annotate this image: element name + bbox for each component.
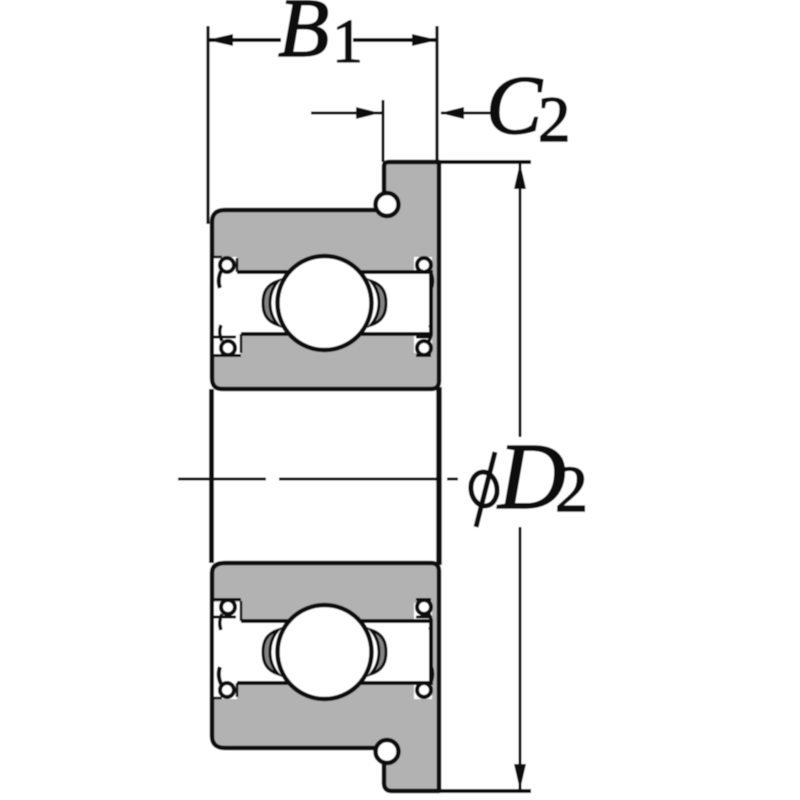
svg-text:2: 2 <box>555 453 588 526</box>
bottom seal curl top-right <box>417 600 431 614</box>
bottom cavity right wall <box>429 619 433 685</box>
label phi D2 <box>469 425 588 529</box>
dimension C2 extension line <box>382 100 385 162</box>
bottom seal curl bottom-right <box>417 683 431 697</box>
bore right face line <box>436 387 442 565</box>
top cavity white <box>214 271 432 334</box>
bottom cage left <box>263 630 278 674</box>
arrow phi D2 top <box>514 163 526 189</box>
bottom groove step lines <box>212 697 222 700</box>
top cavity right wall <box>429 270 433 336</box>
bottom cavity seal groove whites <box>214 683 237 699</box>
top seal curl top-right <box>417 258 431 272</box>
arrow B1 left <box>207 34 233 46</box>
bore left face line <box>209 389 214 563</box>
top cavity inner race line <box>241 332 430 336</box>
top flange root notch <box>376 193 399 216</box>
svg-text:2: 2 <box>538 84 571 156</box>
bottom half silhouette with flange tab <box>212 563 439 791</box>
centerline <box>178 478 266 481</box>
dimension B1 extension line left <box>206 26 209 224</box>
dimension B1 line <box>208 38 281 42</box>
top cage left <box>263 281 278 325</box>
dimension C2 line left with arrow <box>311 112 383 115</box>
bottom cavity inner race line <box>241 619 430 623</box>
bottom seal curl bottom-left <box>220 683 234 697</box>
bottom flange root notch <box>376 740 399 763</box>
svg-text:1: 1 <box>332 8 363 76</box>
bottom ball <box>278 605 372 699</box>
phi D2 bottom extension line <box>439 789 531 793</box>
top ball <box>278 256 372 350</box>
arrow phi D2 bottom <box>514 764 526 790</box>
arrow B1 right <box>412 34 438 46</box>
dimension B1 extension line right <box>435 26 438 162</box>
top half outer+inner ring silhouette with flange tab <box>212 162 439 389</box>
top seal curl bottom-left <box>221 341 235 355</box>
bottom cavity outer race line <box>237 681 430 685</box>
top cavity seal groove whites <box>214 257 237 273</box>
top seal curl top-left <box>220 258 234 272</box>
phi D2 dimension line <box>519 164 522 437</box>
top groove step lines <box>212 256 222 259</box>
dimension C2 line right with arrow <box>441 112 490 115</box>
bottom cavity white <box>214 621 432 683</box>
phi D2 top extension line <box>439 160 531 164</box>
top cage right <box>371 281 386 325</box>
top seal curl bottom-right <box>417 341 431 355</box>
svg-text:B: B <box>278 0 329 75</box>
svg-text:C: C <box>486 59 543 152</box>
bottom cage right <box>371 630 386 674</box>
top cavity outer race line <box>237 270 430 274</box>
bottom seal curl top-left <box>221 600 235 614</box>
